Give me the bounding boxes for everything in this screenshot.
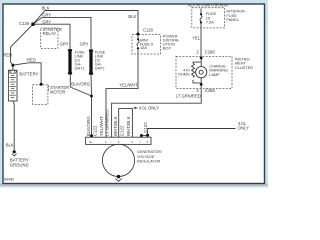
svg-text:C128: C128 bbox=[19, 21, 30, 26]
svg-text:RED: RED bbox=[27, 58, 36, 63]
svg-text:C122: C122 bbox=[143, 122, 148, 133]
svg-text:GRY: GRY bbox=[80, 41, 89, 46]
svg-text:VOLTAGE: VOLTAGE bbox=[137, 155, 155, 159]
svg-text:GROUND: GROUND bbox=[10, 162, 29, 167]
svg-text:BLK: BLK bbox=[128, 14, 136, 19]
svg-text:89480: 89480 bbox=[4, 178, 14, 182]
svg-text:C120: C120 bbox=[143, 27, 154, 32]
svg-text:MOTOR: MOTOR bbox=[50, 89, 66, 94]
svg-text:BLK/ORG: BLK/ORG bbox=[86, 116, 91, 137]
svg-text:WHT/BLK: WHT/BLK bbox=[126, 116, 131, 136]
svg-text:RELAY: RELAY bbox=[43, 31, 57, 36]
svg-text:LAMP: LAMP bbox=[209, 72, 220, 77]
svg-text:RED: RED bbox=[3, 53, 12, 58]
svg-text:GRY): GRY) bbox=[95, 66, 105, 71]
svg-text:YEL: YEL bbox=[192, 35, 201, 40]
svg-text:C288: C288 bbox=[205, 88, 216, 93]
svg-text:GRY: GRY bbox=[60, 41, 69, 46]
svg-text:15A: 15A bbox=[140, 45, 147, 50]
svg-text:BLK: BLK bbox=[42, 6, 50, 11]
svg-text:C288: C288 bbox=[205, 49, 216, 54]
svg-text:LT GRN/RED: LT GRN/RED bbox=[176, 94, 201, 99]
svg-text:C122: C122 bbox=[93, 125, 98, 136]
svg-text:GRY: GRY bbox=[42, 13, 51, 18]
svg-text:BLK: BLK bbox=[6, 143, 14, 148]
svg-text:WHT/BLK: WHT/BLK bbox=[113, 116, 118, 136]
svg-text:OHMS: OHMS bbox=[178, 72, 190, 77]
svg-text:YEL/WHT: YEL/WHT bbox=[119, 82, 138, 87]
svg-text:LT GRN/RED: LT GRN/RED bbox=[104, 109, 109, 137]
svg-text:CLUSTER: CLUSTER bbox=[235, 65, 253, 70]
svg-text:GENERATOR/: GENERATOR/ bbox=[137, 150, 163, 154]
svg-text:C122: C122 bbox=[120, 125, 125, 136]
svg-text:REGULATOR: REGULATOR bbox=[137, 160, 161, 164]
svg-text:4.0L ONLY: 4.0L ONLY bbox=[139, 106, 159, 111]
svg-text:BLK/ORG: BLK/ORG bbox=[71, 81, 90, 86]
svg-text:GRY: GRY bbox=[42, 19, 51, 24]
svg-text:PANEL: PANEL bbox=[226, 17, 239, 22]
svg-text:ONLY: ONLY bbox=[238, 125, 249, 130]
svg-text:YEL/WHT: YEL/WHT bbox=[99, 116, 104, 136]
svg-text:BOX: BOX bbox=[163, 46, 172, 51]
svg-text:HOT IN START OR RUN: HOT IN START OR RUN bbox=[188, 2, 228, 7]
svg-text:BATTERY: BATTERY bbox=[19, 72, 38, 77]
svg-text:GRY): GRY) bbox=[75, 66, 85, 71]
svg-text:7.5A: 7.5A bbox=[206, 20, 214, 25]
